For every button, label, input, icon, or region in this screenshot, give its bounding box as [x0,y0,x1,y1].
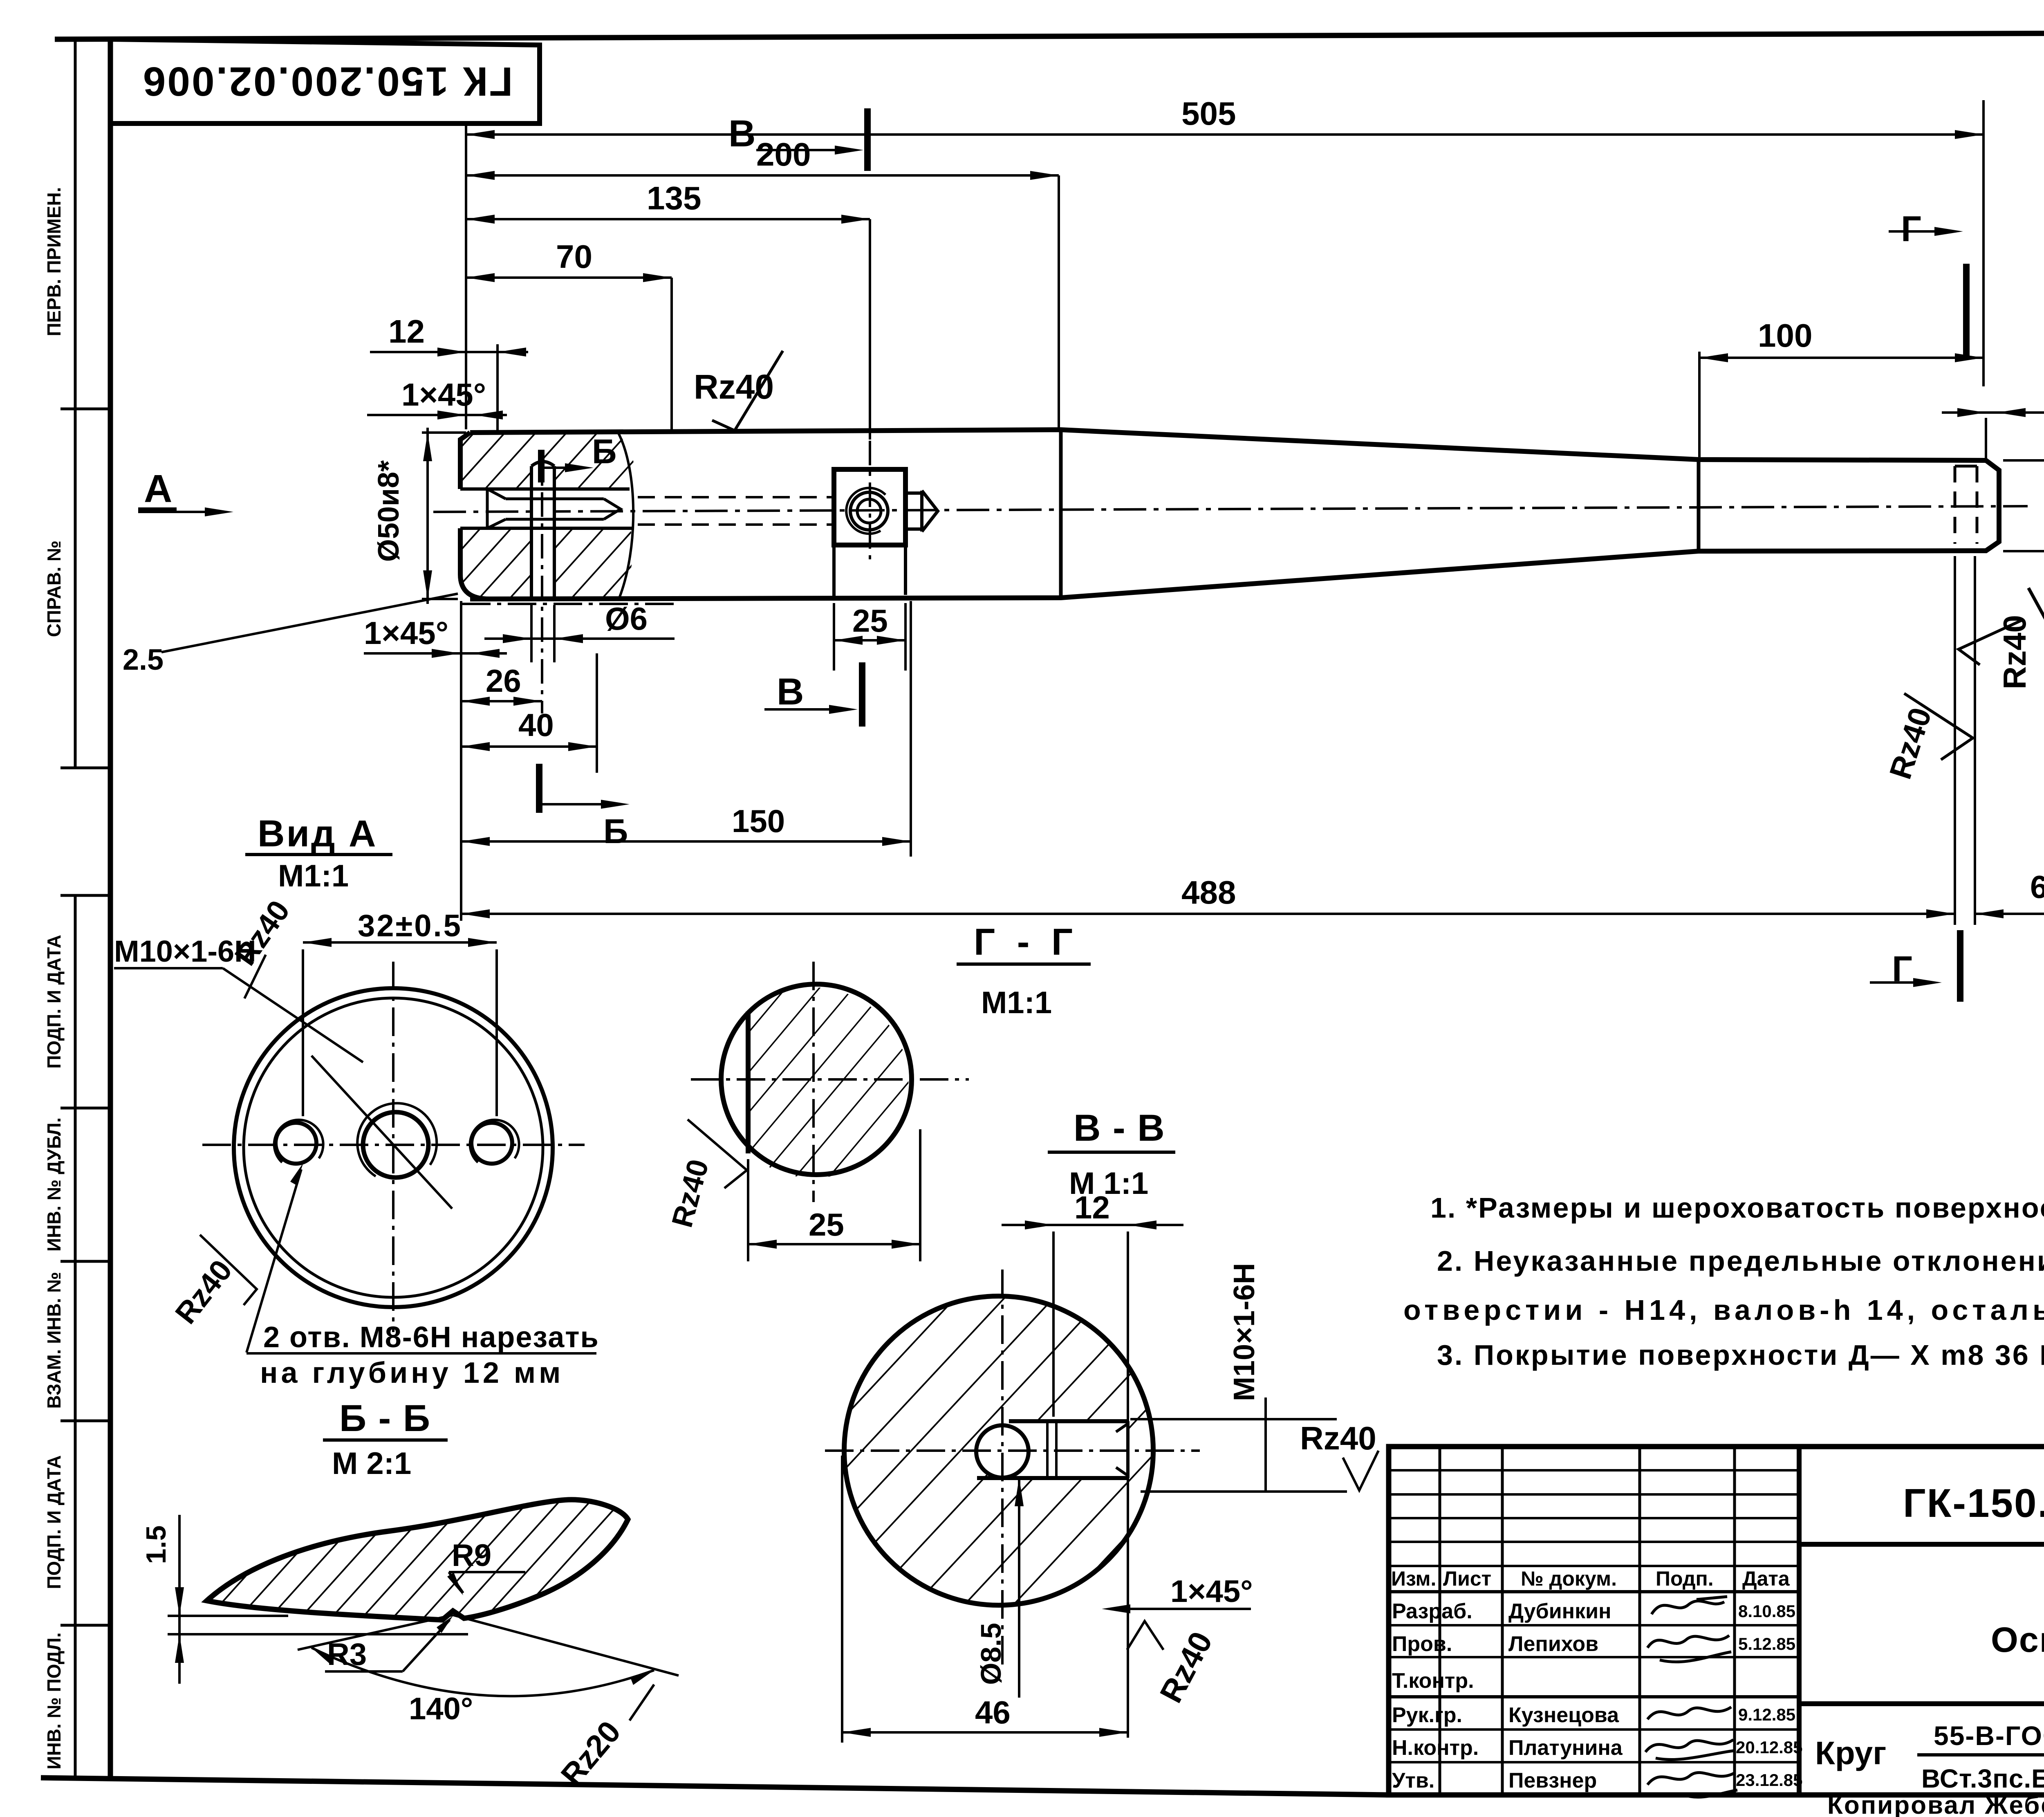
Rz40 slanted tick [1904,693,1973,760]
svg-text:Дубинкин: Дубинкин [1508,1599,1611,1623]
vertical hole centerline [541,451,543,713]
view A title underline [245,853,392,856]
svg-text:на глубину 12 мм: на глубину 12 мм [260,1357,564,1389]
cone base line [920,491,923,532]
G-G vertical centerline [812,962,815,1202]
cone stub bottom [905,527,922,531]
boss thread arc [846,488,885,534]
V-V dia 8.5 leader line [1018,1480,1020,1698]
V-V slot whiteout [1002,1423,1128,1476]
section G lower arrowhead [1913,978,1942,987]
left lower long extension [460,601,462,921]
signature utv [1647,1772,1737,1797]
right hole bold circle [471,1123,512,1164]
radius 2.5 leader [161,594,458,652]
margin cell divider y1878 [61,767,110,769]
section B upper arrow line [541,467,580,469]
svg-text:№ докум.: № докум. [1521,1567,1617,1590]
svg-text:В: В [777,671,804,713]
right end hidden hole left dash [1954,466,1957,544]
V-V dim 46 arrows [842,1728,1128,1737]
section B lower arrowhead [601,800,630,809]
svg-text:20.12.85: 20.12.85 [1736,1738,1803,1757]
svg-text:Вид А: Вид А [258,813,377,855]
V-V slot bottom line [977,1476,1128,1480]
V-V dim 12 arrows outside [1025,1220,1156,1229]
bore cone tip [604,499,621,519]
counterbore chamfer bottom [487,519,506,528]
counterbore chamfer top [487,489,506,499]
section trace diagonal [312,1056,452,1209]
left rows small 4 [1389,1541,1799,1543]
dim 40 extension [596,653,598,773]
head hatch lower [460,528,632,599]
section V lower stroke [859,662,865,727]
left hole thread arc [274,1120,323,1162]
view A arrow line [138,511,223,513]
svg-text:Rz40: Rz40 [1997,615,2033,689]
section V upper arrow line [756,149,852,151]
G-G dim 25 arrows [748,1240,920,1249]
flange inner circle [244,998,543,1297]
dia 50 arrows [423,433,432,599]
head hatch upper [460,433,635,489]
dim 200 extension [1058,175,1060,427]
view A arrowhead [205,507,233,516]
dim 25 boss ext left [833,603,835,671]
svg-text:ПЕРВ. ПРИМЕН.: ПЕРВ. ПРИМЕН. [43,187,65,336]
left rows small 1 [1389,1469,1799,1472]
svg-text:150: 150 [732,803,785,839]
svg-text:2.5: 2.5 [123,644,164,676]
center hole channel bottom [460,527,632,530]
svg-text:В - В: В - В [1074,1107,1165,1149]
boss hole inner circle [857,499,881,523]
G-G circle [721,984,912,1175]
dia 6 extension left [530,605,533,662]
V-V slot right edge [1126,1421,1130,1478]
dia 50 extension top [422,431,466,434]
Rz40 lower tick [200,1235,257,1305]
dia 50 dim line [426,428,429,604]
svg-text:Изм.: Изм. [1391,1567,1436,1590]
dim 150 line [461,840,911,843]
column line x3522 [1439,1447,1441,1795]
margin cell divider y3475 [61,1420,110,1422]
section G upper stroke [1963,264,1970,360]
Rz40 vertical ext-line tick [1959,619,2024,665]
V-V slot top line [1009,1419,1128,1423]
svg-text:ГК 150.200.02.006: ГК 150.200.02.006 [141,58,513,104]
section V-V underline [1048,1151,1175,1154]
left header row top [1389,1565,1799,1567]
view A underline [138,507,177,511]
svg-text:Ø6: Ø6 [605,601,648,637]
V-V thread line 1 [1046,1423,1049,1477]
svg-text:2. Неуказанные предельные отк: 2. Неуказанные предельные отклонения раз… [1437,1245,2044,1277]
svg-text:Пров.: Пров. [1392,1632,1452,1656]
Rz40 right big tick [2028,552,2044,622]
angle 140 left line [298,1615,453,1650]
V-V Rz40 lower tick [1127,1621,1163,1650]
G-G Rz40 tick [688,1119,747,1188]
svg-text:12: 12 [1074,1189,1110,1225]
vertical hole left edge [530,466,533,599]
left margin inner line lower [74,895,77,1779]
svg-text:М 2:1: М 2:1 [332,1446,411,1481]
column line x4011 [1638,1447,1641,1795]
chamfer 1x45 upper arrows [437,411,503,419]
hidden hole line upper [638,496,833,498]
svg-text:70: 70 [556,238,592,275]
section V upper stroke [864,108,871,171]
svg-text:М1:1: М1:1 [981,985,1052,1020]
svg-text:Б - Б: Б - Б [339,1398,431,1439]
section G lower stroke [1957,930,1963,1002]
V-V thread line 2 [1055,1423,1058,1477]
dim 505 left extension [465,123,467,429]
taper end line [1697,460,1701,551]
flange outer circle [234,988,553,1307]
svg-text:3. Покрытие поверхности Д— Х: 3. Покрытие поверхности Д— Х m8 36 ГОСТ … [1437,1339,2044,1371]
leader to M8 hole [247,1169,301,1353]
dim 1.5 lower ref line [168,1633,468,1635]
flange horizontal centerline [202,1144,585,1146]
dim 32 arrows [303,938,497,947]
svg-text:Г - Г: Г - Г [974,921,1078,963]
svg-text:32±0.5: 32±0.5 [358,908,462,943]
row razrab bottom [1389,1624,1799,1626]
section B-B underline [323,1438,448,1442]
V-V dim 46 ext left [841,1456,843,1743]
dim 12 arrows outside [437,348,526,357]
dim 70 line [466,276,672,279]
svg-text:Копировал Жебенёва 2ч: Копировал Жебенёва 2ч [1827,1791,2044,1817]
dim 6.5 right extension [1974,556,1976,925]
G-G dim 25 line [748,1243,920,1245]
bore line top [506,498,604,500]
svg-text:Дата: Дата [1742,1567,1790,1590]
svg-text:2 отв. М8-6Н нарезать: 2 отв. М8-6Н нарезать [263,1321,599,1354]
margin cell divider y3085 [61,1260,110,1263]
svg-text:1×45°: 1×45° [364,615,448,651]
svg-text:Утв.: Утв. [1392,1769,1434,1792]
dim 1.5 vertical line [178,1515,181,1684]
boss square [834,469,905,545]
G-G flat chord [746,1012,751,1153]
svg-text:100: 100 [1758,317,1812,354]
chamfer 1x45 right line [1942,411,2044,414]
margin cell divider y3975 [61,1624,110,1627]
svg-text:ВСт.3пс.Б-ГОСТ535-79: ВСт.3пс.Б-ГОСТ535-79 [1921,1764,2044,1793]
svg-text:Круг: Круг [1815,1735,1886,1771]
dim 135 extension [869,219,871,440]
dim 40 line [461,745,597,748]
R9 underline [449,1571,525,1573]
R3 leader [403,1620,450,1671]
V-V Rz40 right tick [1343,1451,1378,1490]
dim 488 line [461,913,1955,915]
material fraction bar [1917,1753,2044,1756]
head break wavy edge [618,433,633,598]
dia 6 dim line [484,637,675,640]
svg-text:Т.контр.: Т.контр. [1392,1669,1474,1693]
shaft axis centerline [433,506,2028,512]
svg-text:ИНВ. № ПОДЛ.: ИНВ. № ПОДЛ. [43,1632,65,1769]
dim 25 boss ext right [904,603,907,671]
top-left inverted stamp box [110,39,540,123]
section G-G underline [957,962,1091,966]
cone point [922,491,938,532]
section B upper arrowhead [565,463,594,472]
Rz20 tick [630,1685,654,1721]
svg-text:1×45°: 1×45° [1170,1574,1253,1609]
left hole bold circle [276,1123,316,1164]
svg-text:Рук.гр.: Рук.гр. [1392,1703,1462,1727]
svg-text:Певзнер: Певзнер [1508,1769,1597,1792]
V-V dim 46 line [842,1731,1128,1734]
dim 488 right extension [1954,556,1956,925]
chamfer 1x45 right arrows [1957,408,2026,417]
svg-text:Лист: Лист [1443,1567,1491,1590]
left rows small 3 [1389,1517,1799,1519]
margin cell divider y2710 [61,1107,110,1110]
svg-text:40: 40 [518,707,554,743]
svg-text:505: 505 [1181,95,1236,132]
V-V slot end chamfer top [1116,1424,1128,1432]
dim 135 line [466,218,870,220]
section V upper arrowhead [835,146,863,155]
R9 arrowhead [447,1572,463,1595]
designation row bottom line [1799,1542,2044,1547]
dim 6.5 tail line [1975,913,2044,915]
svg-text:ИНВ. № ДУБЛ.: ИНВ. № ДУБЛ. [43,1117,65,1252]
svg-text:25: 25 [809,1207,844,1243]
row prov bottom [1389,1656,1799,1658]
chamfer 1x45 lower line [364,652,507,655]
svg-text:8.10.85: 8.10.85 [1738,1602,1795,1621]
signature prov [1647,1635,1731,1662]
dim 505 line [466,133,1983,136]
section V lower arrowhead [829,705,858,714]
svg-text:В: В [728,113,755,155]
groove lens profile hatched [207,1500,628,1620]
svg-text:ПОДП. И ДАТА: ПОДП. И ДАТА [43,1455,65,1589]
dim 200 arrows [466,171,1059,180]
dim 150 right extension [910,601,912,857]
dim 70 extension [670,278,673,430]
shaft outline [470,430,1999,599]
signature razrab [1652,1597,1727,1614]
V-V horizontal centerline [825,1449,1200,1452]
svg-text:Ось: Ось [1991,1620,2044,1660]
taper start line [1059,430,1063,598]
column line x4243 [1733,1447,1736,1795]
Rz40 top middle tick [712,351,783,431]
section B lower stroke [536,764,542,813]
svg-text:1.5: 1.5 [141,1525,172,1564]
dim 1.5 arrows outside [175,1587,184,1663]
svg-text:46: 46 [975,1694,1011,1730]
svg-text:Платунина: Платунина [1508,1736,1623,1760]
svg-text:9.12.85: 9.12.85 [1738,1705,1795,1724]
row tkontr bottom [1389,1695,1799,1698]
V-V slot end chamfer bottom [1116,1467,1128,1476]
chamfer 1x45 upper line [367,414,507,416]
svg-text:488: 488 [1181,874,1236,911]
V-V hatched circle [844,1296,1153,1605]
right end hidden hole top dash [1955,465,1977,468]
R9 leader [449,1572,463,1593]
V-V outer circle [844,1296,1153,1605]
sheet top border [55,32,2044,39]
svg-text:Б: Б [603,812,628,850]
drilled hole white channel [533,459,553,599]
G-G hatched segment [748,987,908,1178]
center hole thread arc [357,1103,437,1176]
dim 25 boss line [834,639,905,642]
shaft left face [460,433,491,599]
svg-text:135: 135 [647,180,701,216]
svg-text:55-В-ГОСТ 2590-71: 55-В-ГОСТ 2590-71 [1934,1721,2044,1751]
name-material divider [1799,1701,2044,1706]
right hole thread arc [470,1120,519,1162]
angle 140 right line [453,1615,679,1676]
svg-text:R9: R9 [452,1538,491,1573]
V-V chamfer line [1113,1608,1251,1610]
left margin inner line upper [74,39,77,768]
svg-text:Кузнецова: Кузнецова [1508,1703,1619,1727]
dia 6 extension right [553,605,556,662]
svg-text:6.5: 6.5 [2030,869,2044,905]
column line x3675 [1501,1447,1504,1795]
svg-text:А: А [144,467,172,511]
G-G dim 25 ext right [919,1129,921,1261]
M10 leader [223,968,363,1062]
section V lower arrow line [764,708,846,711]
signature rukgr [1647,1707,1731,1719]
R3 underline [325,1670,403,1673]
dim 100 line [1699,357,1983,359]
dim 25 boss arrows [834,636,905,645]
svg-text:ПОДП. И ДАТА: ПОДП. И ДАТА [43,935,65,1069]
boss centerline vertical [869,441,871,561]
svg-text:М1:1: М1:1 [278,859,349,893]
counterbore step [486,489,489,528]
dim 70 arrows [466,273,672,282]
svg-text:М10×1-6Н: М10×1-6Н [1228,1263,1261,1401]
angle 140 arc arrows [312,1648,654,1685]
svg-text:Rz40: Rz40 [1300,1420,1376,1456]
dim 6.5 outside arrow [1975,909,2004,918]
chamfer 1x45 lower arrows [432,649,500,658]
margin cell divider y2190 [61,894,110,897]
Rz40 upper tick [244,955,266,998]
boss right side lower [904,545,907,595]
dim 12 line [370,351,528,353]
vertical hole cap [531,462,554,466]
dim 100 left extension [1698,352,1701,457]
section G lower arrow line [1870,981,1930,984]
center hole channel top [460,487,630,491]
dim 26 line [461,700,542,702]
V-V center hole circle [976,1425,1029,1478]
vertical hole right edge [553,466,556,599]
dia 6 arrows outside [503,634,583,643]
dash-dot under head [462,603,677,605]
title block outer box [1389,1447,2044,1795]
center hole bold circle [363,1112,428,1178]
svg-text:СПРАВ. №: СПРАВ. № [43,541,65,637]
svg-text:Б: Б [592,432,616,471]
svg-text:ВЗАМ. ИНВ. №: ВЗАМ. ИНВ. № [43,1272,65,1409]
boss left side lower [832,545,836,597]
V-V chamfer arrowhead [1102,1604,1130,1613]
G-G dim 25 ext left [747,1159,749,1261]
G-G horizontal centerline [691,1078,969,1081]
row rukgr bottom [1389,1728,1799,1731]
V-V vertical centerline [1001,1270,1004,1668]
svg-text:ГК-150.200.02.006: ГК-150.200.02.006 [1903,1481,2044,1525]
dim 26 arrows [461,697,542,706]
V-V dim 12 line [1002,1224,1183,1226]
dim 1.5 upper ref line [168,1615,288,1617]
section G upper arrowhead [1934,227,1963,236]
dim 12 extension [496,344,499,431]
dim 40 arrows [461,742,597,751]
svg-text:23.12.85: 23.12.85 [1736,1770,1803,1790]
dim 150 arrows [461,837,911,846]
svg-text:5.12.85: 5.12.85 [1738,1634,1795,1653]
flange vertical centerline [392,962,394,1332]
dim 100 arrows [1699,353,1983,362]
V-V keyhole whiteout [976,1425,1029,1478]
svg-text:26: 26 [486,663,521,699]
svg-text:Г: Г [1901,209,1921,249]
row nkontr bottom [1389,1761,1799,1763]
svg-text:25: 25 [852,603,888,639]
dim 135 arrows [466,215,870,224]
svg-text:12: 12 [388,313,425,350]
leader arrowhead [290,1163,303,1185]
sheet left inner frame border [108,39,113,1781]
svg-text:200: 200 [756,136,811,173]
V-V dim 12 ext right long [1127,1232,1129,1738]
svg-text:Лепихов: Лепихов [1508,1632,1598,1656]
V-V slot ext line lower [1141,1490,1347,1493]
left rows small 2 [1389,1493,1799,1496]
left header row bottom [1389,1590,1799,1593]
chamfer start extension [1985,418,1987,459]
dia 50 extension bottom [422,598,458,600]
svg-text:Ø8.5: Ø8.5 [975,1623,1007,1685]
dim 32 ext left [302,949,304,1116]
svg-text:Ø50и8*: Ø50и8* [372,460,405,562]
svg-text:1. *Размеры и шероховатость по: 1. *Размеры и шероховатость поверхности … [1430,1192,2044,1224]
V-V slot ext line upper [1130,1418,1337,1420]
dim 488 arrows [461,909,1955,918]
hidden hole line lower [638,523,833,526]
margin cell divider y1000 [61,408,110,411]
R3 arrowhead [437,1616,453,1633]
svg-text:140°: 140° [409,1691,473,1726]
angle 140 arc [312,1648,654,1696]
M10 label underline [114,967,223,969]
dim 32 ext right [495,949,498,1116]
boss hole outer circle [850,492,888,530]
svg-text:Разраб.: Разраб. [1392,1599,1472,1623]
section G upper arrow line [1889,230,1952,233]
